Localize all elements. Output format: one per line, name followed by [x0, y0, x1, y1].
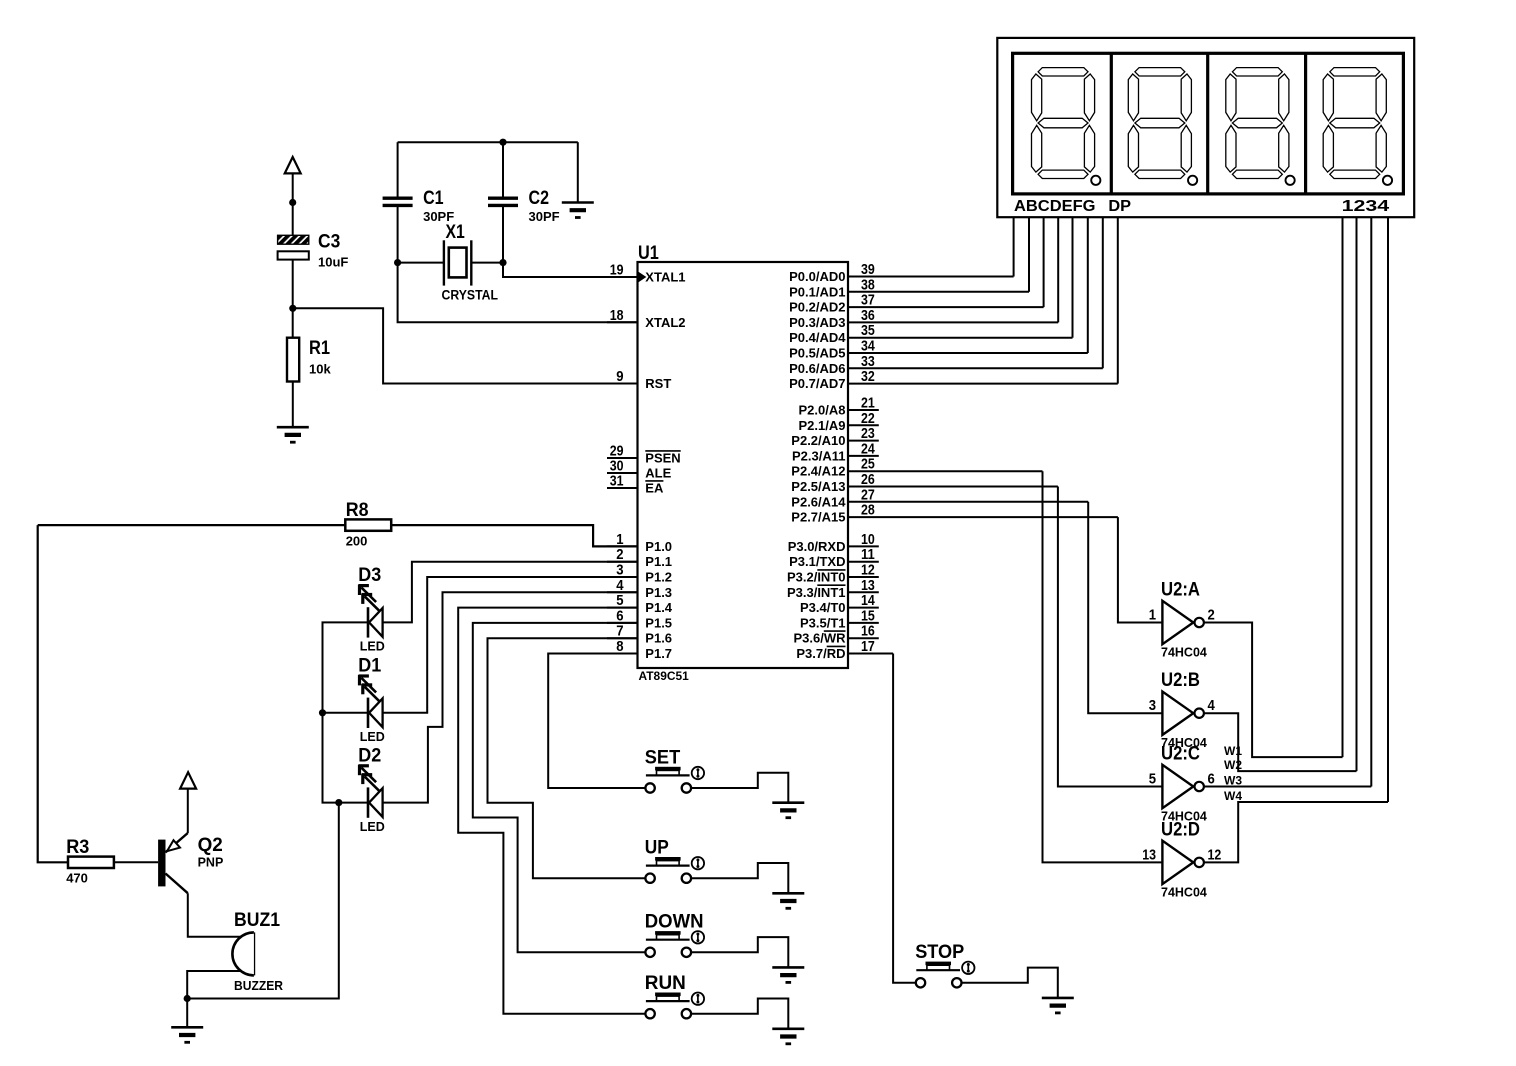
XTAL1 clock input arrow [638, 272, 646, 282]
svg-text:25: 25 [861, 457, 875, 473]
svg-text:30PF: 30PF [529, 209, 560, 224]
svg-text:D2: D2 [358, 744, 381, 766]
svg-text:LED: LED [360, 820, 385, 834]
junction top rail at C2 [499, 139, 506, 146]
svg-text:P1.2: P1.2 [645, 570, 672, 585]
ground below buzzer [171, 1026, 203, 1029]
U1 pin 35 P0.4/AD4 [848, 337, 1073, 339]
inverter U2:B (74HC04) [1149, 669, 1215, 750]
wire U2:A output to digit 1 (W1) [1204, 623, 1343, 758]
svg-text:10uF: 10uF [318, 255, 348, 270]
svg-text:12: 12 [1208, 847, 1222, 863]
push-button DOWN [645, 911, 704, 957]
ground at SET [772, 801, 804, 804]
U1 pin 6 P1.5 [607, 622, 638, 624]
U1 pin 13 P3.3 [848, 591, 879, 593]
ground at DOWN [772, 966, 804, 969]
svg-text:30: 30 [610, 459, 624, 475]
capacitor C3 10uF (polarized) [278, 231, 349, 270]
LED D2 [358, 744, 385, 834]
U1 pin 9 RST [607, 383, 638, 385]
wire P1.7 to SET [548, 654, 645, 789]
wire R8 to P1.0 [391, 525, 637, 546]
svg-text:U2:B: U2:B [1161, 669, 1200, 691]
7-seg digit 1 [1032, 68, 1101, 185]
svg-text:SET: SET [645, 746, 680, 768]
U1 pin 10 P3.0 [848, 545, 879, 547]
U1 pin 14 P3.4 [848, 607, 879, 609]
svg-text:P3.3/INT1: P3.3/INT1 [787, 585, 846, 600]
wire R3 to Q2 base [114, 861, 158, 863]
svg-text:P0.4/AD4: P0.4/AD4 [789, 330, 846, 345]
wire U2:C output to digit 3 (W3) [1204, 786, 1371, 788]
wire DOWN to ground [692, 937, 789, 967]
display segment pin stubs A-G,DP [1013, 217, 1015, 276]
U1 pin 11 P3.1 [848, 561, 879, 563]
wire RUN to ground [692, 999, 789, 1029]
svg-text:R1: R1 [309, 337, 330, 359]
junction buzzer/ground/LED return [184, 995, 191, 1002]
U1 pin 5 P1.4 [607, 607, 638, 609]
U1 pin 22 P2.1/A9 [848, 424, 879, 426]
wire U2:D output to digit 4 (W4) [1204, 802, 1388, 862]
svg-text:UP: UP [645, 837, 669, 859]
svg-text:34: 34 [861, 339, 875, 355]
svg-text:U2:C: U2:C [1161, 743, 1200, 765]
wire P1.5 to DOWN [473, 623, 645, 952]
svg-text:D1: D1 [358, 655, 381, 677]
svg-text:STOP: STOP [915, 941, 964, 963]
svg-text:2: 2 [1208, 608, 1215, 624]
transistor Q2 PNP [158, 789, 223, 893]
U1 pin 37 P0.2/AD2 [848, 306, 1044, 308]
svg-text:P1.7: P1.7 [645, 646, 672, 661]
display digit pin stubs 1-4 [1342, 217, 1344, 757]
wire P3.7 to STOP [893, 654, 915, 983]
svg-text:P3.2/INT0: P3.2/INT0 [787, 570, 846, 585]
svg-text:R8: R8 [346, 499, 369, 521]
wire C1 bottom to XTAL2 [398, 205, 638, 322]
power VCC arrow (top left) [285, 157, 301, 173]
wire crystal left [398, 262, 444, 264]
svg-text:P0.0/AD0: P0.0/AD0 [789, 269, 845, 284]
push-button UP [645, 837, 704, 883]
svg-text:U2:D: U2:D [1161, 818, 1200, 840]
svg-text:1: 1 [1149, 608, 1156, 624]
U1 pin 25 P2.4/A12 [848, 470, 1043, 472]
junction rail/D1 [319, 709, 326, 716]
svg-text:P0.5/AD5: P0.5/AD5 [789, 346, 845, 361]
svg-text:P0.6/AD6: P0.6/AD6 [789, 361, 845, 376]
svg-text:P3.7/RD: P3.7/RD [796, 646, 845, 661]
wire P2.6 to U2:B input [1088, 502, 1162, 713]
wire left rail to R8 [38, 524, 346, 526]
wire P1.2 to D1 [383, 577, 638, 713]
capacitor C1 [383, 187, 455, 224]
svg-text:W4: W4 [1224, 789, 1242, 803]
svg-text:1234: 1234 [1342, 198, 1390, 215]
wire junction to RST jog [293, 308, 638, 383]
U1 pin 1 P1.0 [607, 545, 638, 547]
7-seg digit 4 [1323, 68, 1392, 185]
svg-text:DP: DP [1108, 198, 1131, 215]
svg-text:21: 21 [861, 396, 875, 412]
push-button STOP [915, 941, 974, 987]
svg-text:EA: EA [645, 481, 664, 496]
U1 pin 33 P0.6/AD6 [848, 367, 1103, 369]
svg-text:P2.1/A9: P2.1/A9 [799, 418, 846, 433]
wire P1.4 to RUN [458, 608, 645, 1014]
ground at UP [772, 892, 804, 895]
U1 pin 8 P1.7 [607, 653, 638, 655]
U1 pin 27 P2.6/A14 [848, 501, 1088, 503]
svg-text:ALE: ALE [645, 466, 671, 481]
svg-text:P1.6: P1.6 [645, 631, 672, 646]
svg-text:6: 6 [1208, 772, 1215, 788]
resistor R1 10k [287, 337, 331, 382]
LED D1 [358, 655, 385, 745]
U1 pin 31 EA [607, 487, 638, 489]
svg-text:5: 5 [1149, 772, 1156, 788]
svg-text:P2.6/A14: P2.6/A14 [791, 494, 846, 509]
svg-text:P3.4/T0: P3.4/T0 [800, 600, 846, 615]
svg-text:LED: LED [360, 730, 385, 744]
crystal X1 [442, 221, 499, 302]
svg-text:13: 13 [861, 578, 875, 594]
junction on VCC-C3 wire [289, 199, 296, 206]
push-button SET [645, 746, 704, 792]
svg-text:W3: W3 [1224, 774, 1242, 788]
svg-text:Q2: Q2 [198, 834, 223, 856]
svg-text:17: 17 [861, 639, 875, 655]
U1 pin 30 ALE [607, 472, 638, 474]
ground at RUN [772, 1028, 804, 1031]
wire C2 top [502, 142, 504, 198]
svg-text:27: 27 [861, 487, 875, 503]
svg-text:10k: 10k [309, 362, 331, 377]
wire P1.6 to UP [488, 638, 645, 878]
wire C2 bottom to XTAL1 [503, 205, 638, 277]
wire P1.1 to D3 [383, 562, 638, 623]
svg-text:74HC04: 74HC04 [1161, 646, 1207, 660]
svg-text:26: 26 [861, 472, 875, 488]
svg-text:P1.0: P1.0 [645, 539, 672, 554]
wire R1 to ground [292, 382, 294, 428]
svg-text:W2: W2 [1224, 758, 1242, 772]
svg-text:200: 200 [346, 533, 368, 548]
svg-text:P0.1/AD1: P0.1/AD1 [789, 284, 845, 299]
svg-text:28: 28 [861, 503, 875, 519]
svg-text:BUZ1: BUZ1 [234, 909, 280, 931]
svg-text:11: 11 [861, 547, 875, 563]
svg-text:35: 35 [861, 323, 875, 339]
U1 pin 28 P2.7/A15 [848, 516, 1118, 518]
U1 pin 18 XTAL2 [607, 321, 638, 323]
U1 pin 26 P2.5/A13 [848, 486, 1058, 488]
svg-text:P3.0/RXD: P3.0/RXD [788, 539, 846, 554]
svg-text:PNP: PNP [198, 856, 224, 870]
svg-text:P2.2/A10: P2.2/A10 [791, 433, 845, 448]
svg-text:P2.7/A15: P2.7/A15 [791, 510, 845, 525]
svg-text:23: 23 [861, 426, 875, 442]
svg-text:29: 29 [610, 444, 624, 460]
wire junction to ground [186, 999, 188, 1028]
microcontroller U1 AT89C51 [638, 242, 849, 683]
U1 pin 7 P1.6 [607, 637, 638, 639]
svg-text:P0.7/AD7: P0.7/AD7 [789, 376, 845, 391]
svg-text:U2:A: U2:A [1161, 579, 1200, 601]
wire C1 top [397, 142, 399, 198]
svg-text:RUN: RUN [645, 972, 686, 994]
junction D2/ground branch [335, 799, 342, 806]
svg-text:D3: D3 [358, 564, 381, 586]
svg-text:PSEN: PSEN [645, 451, 680, 466]
svg-text:14: 14 [861, 593, 875, 609]
inverter U2:D (74HC04) [1142, 818, 1221, 899]
ground at STOP [1042, 997, 1074, 1000]
7-seg digit 3 [1226, 68, 1295, 185]
4-digit 7-segment display module [997, 38, 1414, 217]
U1 pin 34 P0.5/AD5 [848, 352, 1088, 354]
svg-text:P2.5/A13: P2.5/A13 [791, 479, 845, 494]
U1 pin 19 XTAL1 [607, 276, 638, 278]
push-button RUN [645, 972, 704, 1018]
U1 pin 24 P2.3/A11 [848, 455, 879, 457]
wire top rail C1-C2-ground [398, 141, 578, 143]
svg-text:3: 3 [1149, 698, 1156, 714]
svg-text:LED: LED [360, 640, 385, 654]
svg-text:P1.3: P1.3 [645, 585, 672, 600]
wire C3 to R1 junction [292, 260, 294, 338]
svg-text:24: 24 [861, 441, 875, 457]
wire P2.5 to U2:C input [1058, 487, 1163, 787]
svg-text:C2: C2 [529, 187, 550, 209]
resistor R8 [345, 499, 391, 549]
U1 pin 32 P0.7/AD7 [848, 383, 1118, 385]
U1 pin 36 P0.3/AD3 [848, 321, 1058, 323]
U1 pin 39 P0.0/AD0 [848, 276, 1014, 278]
U1 pin 17 P3.7 [848, 653, 893, 655]
U1 pin 12 P3.2 [848, 576, 879, 578]
U1 pin 21 P2.0/A8 [848, 409, 879, 411]
svg-text:DOWN: DOWN [645, 911, 704, 933]
power VCC arrow (Q2 emitter) [180, 772, 196, 788]
svg-text:39: 39 [861, 262, 875, 278]
resistor R3 [66, 836, 114, 886]
svg-text:P1.1: P1.1 [645, 554, 672, 569]
svg-text:15: 15 [861, 608, 875, 624]
svg-text:U1: U1 [638, 242, 659, 264]
svg-text:10: 10 [861, 532, 875, 548]
wire VCC to C3 [292, 173, 294, 235]
svg-text:36: 36 [861, 308, 875, 324]
U1 pin 16 P3.6 [848, 637, 879, 639]
wire buzzer bottom to ground junction [187, 971, 240, 999]
LED D3 [358, 564, 385, 654]
inverter U2:C (74HC04) [1149, 743, 1215, 824]
wire Q2 collector to buzzer [188, 893, 241, 937]
svg-text:P2.3/A11: P2.3/A11 [792, 448, 846, 463]
wire P2.4 to U2:D input [1043, 471, 1163, 862]
wire P2.7 to U2:A input [1118, 517, 1163, 622]
capacitor C2 [488, 187, 560, 224]
svg-text:12: 12 [861, 563, 875, 579]
wire UP to ground [692, 863, 789, 893]
U1 pin 3 P1.2 [607, 576, 638, 578]
svg-text:13: 13 [1142, 847, 1156, 863]
wire top rail down to ground [577, 142, 579, 202]
wire left rail down to R3 [38, 525, 68, 862]
svg-text:P0.3/AD3: P0.3/AD3 [789, 315, 845, 330]
svg-text:RST: RST [645, 376, 671, 391]
svg-text:P3.5/T1: P3.5/T1 [800, 615, 846, 630]
U1 pin 29 PSEN [607, 457, 638, 459]
svg-text:X1: X1 [446, 221, 465, 243]
U1 pin 4 P1.3 [607, 591, 638, 593]
U1 pin 2 P1.1 [607, 561, 638, 563]
svg-text:P0.2/AD2: P0.2/AD2 [789, 300, 845, 315]
svg-text:22: 22 [861, 411, 875, 427]
svg-text:P1.5: P1.5 [645, 615, 672, 630]
svg-text:R3: R3 [66, 836, 89, 858]
wire crystal right [471, 262, 503, 264]
svg-text:W1: W1 [1224, 744, 1242, 758]
wire junction to D2 cathode branch [187, 803, 339, 999]
svg-text:XTAL2: XTAL2 [645, 315, 685, 330]
svg-text:C3: C3 [318, 231, 340, 253]
svg-text:37: 37 [861, 293, 875, 309]
inverter U2:A (74HC04) [1149, 579, 1215, 660]
U1 pin 15 P3.5 [848, 622, 879, 624]
wire U2:B output to digit 2 (W2) [1204, 713, 1357, 771]
svg-text:P3.1/TXD: P3.1/TXD [789, 554, 845, 569]
svg-text:AT89C51: AT89C51 [639, 669, 689, 683]
svg-text:XTAL1: XTAL1 [645, 270, 685, 285]
U1 pin 38 P0.1/AD1 [848, 291, 1029, 293]
junction C3/R1/RST [289, 305, 296, 312]
svg-text:470: 470 [66, 871, 88, 886]
svg-text:38: 38 [861, 277, 875, 293]
svg-text:32: 32 [861, 369, 875, 385]
7-seg digit 2 [1128, 68, 1197, 185]
svg-text:31: 31 [610, 474, 624, 490]
wire P1.3 to D2 [383, 592, 638, 802]
wire SET to ground [692, 773, 789, 803]
svg-text:4: 4 [1208, 698, 1215, 714]
ground near C2 [562, 201, 594, 204]
svg-text:C1: C1 [423, 187, 444, 209]
rail stub at D1 [323, 712, 369, 714]
svg-text:CRYSTAL: CRYSTAL [442, 287, 499, 302]
svg-text:BUZZER: BUZZER [234, 978, 284, 993]
wire STOP to ground [962, 968, 1058, 998]
svg-text:P2.0/A8: P2.0/A8 [799, 403, 846, 418]
buzzer BUZ1 [232, 909, 283, 993]
U1 pin 23 P2.2/A10 [848, 440, 879, 442]
ground below R1 [277, 426, 309, 429]
svg-text:33: 33 [861, 354, 875, 370]
svg-text:P1.4: P1.4 [645, 600, 673, 615]
svg-text:P2.4/A12: P2.4/A12 [791, 464, 845, 479]
junction C2/crystal [499, 259, 506, 266]
svg-text:P3.6/WR: P3.6/WR [793, 631, 846, 646]
svg-text:ABCDEFG: ABCDEFG [1014, 198, 1096, 215]
svg-text:74HC04: 74HC04 [1161, 885, 1207, 899]
LED cathode rail [323, 622, 369, 802]
junction C1/crystal [394, 259, 401, 266]
svg-text:16: 16 [861, 624, 875, 640]
